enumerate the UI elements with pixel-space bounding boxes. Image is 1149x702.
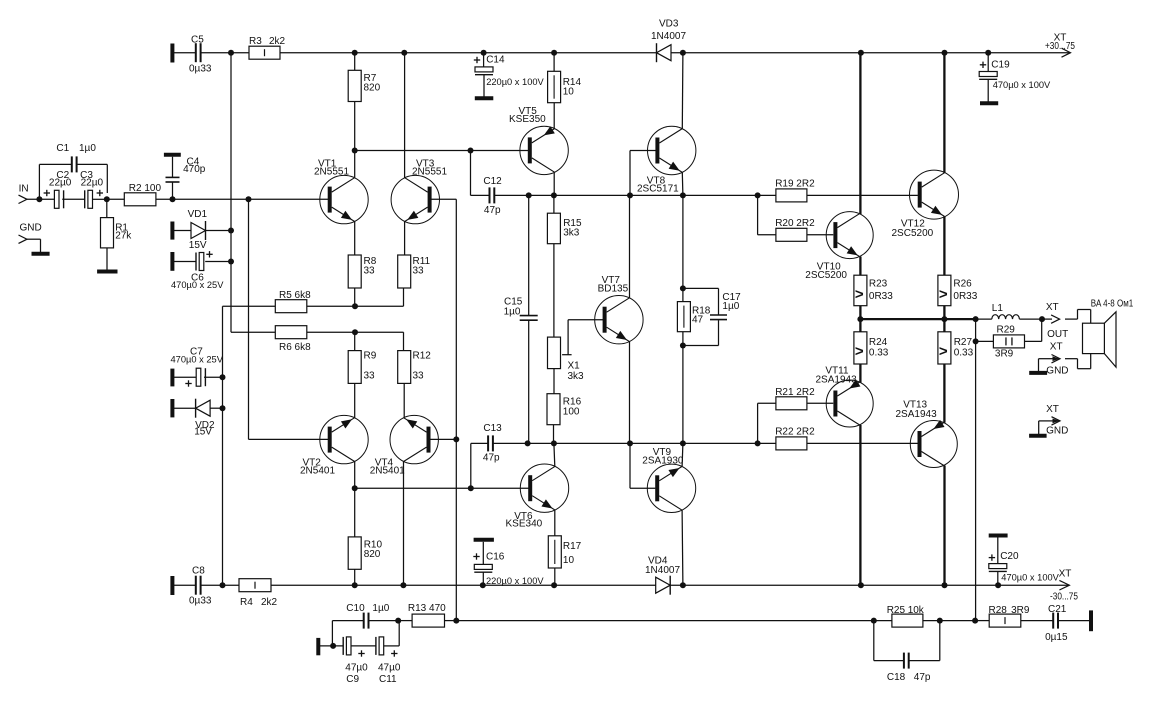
label VD1 15V: [188, 209, 208, 251]
junction C4 tap: [170, 196, 176, 202]
terminal bar C5 left: [170, 44, 174, 63]
transistor VT6 KSE340: [520, 464, 568, 512]
junction R29 left: [973, 338, 979, 344]
junction C7 / column: [220, 374, 226, 380]
junction VT2 collector / VT6 base row: [352, 485, 358, 491]
wire R25 left: [874, 620, 892, 622]
wire NFB row long: [456, 620, 874, 622]
resistor R1: [101, 218, 114, 248]
svg-text:XT: XT: [1059, 569, 1072, 580]
junction R25 left / C18: [871, 618, 877, 624]
resistor R3: [249, 46, 280, 59]
junction bottom rail / R17: [551, 582, 557, 588]
wire R16 to row443: [553, 425, 555, 444]
resistor R10: [348, 537, 361, 569]
wire C2 to C3: [62, 198, 84, 200]
resistor R2: [124, 193, 156, 206]
junction top rail / R14: [551, 50, 557, 56]
capacitor C7 470u0x25V: [196, 368, 205, 386]
svg-text:0µ15: 0µ15: [1045, 632, 1068, 643]
wire bottom -rail left segment: [174, 584, 196, 586]
wire R2 to VT1 base node: [156, 198, 249, 200]
junction top rail / VT12 collector: [942, 50, 948, 56]
svg-text:2N5551: 2N5551: [314, 166, 349, 177]
svg-text:>: >: [939, 286, 948, 303]
label VT12 2SC5200: [892, 218, 934, 238]
svg-text:R12: R12: [413, 351, 432, 362]
svg-text:0R33: 0R33: [869, 291, 893, 302]
transistor VT8 2SC5171: [648, 126, 696, 174]
diode VD4 1N4007: [656, 576, 671, 595]
junction bottom rail / R4 node: [220, 582, 226, 588]
svg-text:R22 2R2: R22 2R2: [775, 427, 815, 438]
wire R13 to NFB junction: [445, 620, 457, 622]
plus C11: [391, 650, 397, 656]
wire GND connector: [27, 238, 41, 240]
wire output row to R24 (thick): [859, 319, 861, 332]
svg-text:2SC5200: 2SC5200: [892, 228, 934, 239]
junction row195 / R19 R20 node: [755, 192, 761, 198]
wire R18 top short: [682, 288, 684, 301]
resistor R25 10k: [892, 614, 923, 627]
wire R8 to tail: [354, 288, 356, 306]
wire +bias column x231: [230, 53, 232, 333]
wire R21 left: [758, 402, 776, 404]
wire C20 bottom: [997, 571, 999, 585]
wire VT9 emitter up: [681, 443, 684, 466]
terminal bar C8 left: [170, 576, 174, 595]
capacitor C21 0u15: [1053, 613, 1058, 629]
wire input to VT2 base column x248: [248, 199, 250, 439]
svg-text:R9: R9: [364, 351, 377, 362]
wire VT4 collector to bottom rail: [403, 462, 405, 586]
terminal bar C4 top: [164, 153, 181, 157]
label VT5 KSE350: [509, 106, 546, 125]
label VT2 2N5401: [300, 457, 335, 476]
plus C19: [980, 62, 986, 68]
wire C16 top: [482, 542, 484, 565]
svg-text:C18: C18: [887, 672, 906, 683]
wire C1 branch right: [77, 163, 108, 165]
plus C7: [185, 380, 191, 386]
plus C2: [44, 190, 50, 196]
wire VT5 collector down: [553, 172, 555, 195]
resistor R9: [348, 351, 361, 384]
svg-text:0.33: 0.33: [869, 348, 889, 359]
svg-text:R24: R24: [869, 337, 888, 348]
svg-text:GND: GND: [20, 223, 42, 234]
junction top rail / VT3 collector: [401, 50, 407, 56]
wire VT12 emitter to R26 (thick): [943, 217, 945, 276]
junction R8/R11 tail: [352, 303, 358, 309]
wire R7 top: [354, 53, 356, 71]
junction row195 / VT7 collector VT8 base: [627, 192, 633, 198]
junction top rail / R7: [352, 50, 358, 56]
svg-text:R2 100: R2 100: [129, 183, 162, 194]
junction row195 / VT8 emitter: [680, 192, 686, 198]
resistor R26 0R33: [938, 275, 951, 306]
resistor R15: [547, 213, 560, 244]
resistor R12: [398, 351, 411, 384]
wire R26 to output row (thick): [943, 306, 945, 319]
wire R28 left: [975, 620, 989, 622]
wire C13 left leg: [470, 443, 472, 488]
wire C20 top: [997, 538, 999, 564]
wire X1 to R16: [553, 369, 555, 394]
svg-text:C5: C5: [191, 35, 204, 46]
capacitor C15 1u0: [520, 316, 538, 321]
svg-text:C21: C21: [1048, 604, 1067, 615]
wire bottom -rail C8 to VD4: [201, 584, 656, 586]
wire C17 loop top: [683, 287, 719, 289]
transistor VT1 2N5551: [320, 175, 368, 223]
terminal bar C14 bottom: [475, 96, 494, 100]
wire output to R29 row: [975, 319, 977, 341]
wire R15 to X1: [553, 244, 555, 337]
svg-text:2k2: 2k2: [261, 597, 278, 608]
terminal bar C19 bottom: [980, 101, 998, 105]
label VT10 2SC5200: [805, 261, 847, 281]
wire C12 left leg: [470, 151, 472, 196]
wire VAS upper row y195: [494, 194, 757, 196]
svg-text:2N5401: 2N5401: [300, 466, 335, 477]
label R8 33: [364, 256, 377, 277]
wire R1 down: [106, 199, 108, 217]
junction output row / R23 R24: [857, 316, 863, 322]
junction row443 / VT9 emitter: [680, 440, 686, 446]
svg-text:C20: C20: [1000, 551, 1019, 562]
svg-text:R3: R3: [249, 36, 262, 47]
junction bottom rail / VT13 collector: [942, 582, 948, 588]
wire C17 loop bottom: [718, 320, 720, 345]
label VD3 1N4007: [651, 19, 686, 43]
label VT11 2SA1943: [816, 366, 858, 386]
svg-text:470µ0 x 100V: 470µ0 x 100V: [1001, 572, 1059, 582]
zener VD2 15V: [196, 399, 211, 418]
wire R22 right to VT13 base: [807, 442, 918, 444]
wire R23 to output row (thick): [859, 306, 861, 319]
svg-text:2SA1943: 2SA1943: [896, 409, 938, 420]
wire output row to R27 (thick): [943, 319, 945, 332]
transistor VT10 2SC5200: [826, 212, 873, 259]
wire R20 left: [758, 234, 776, 236]
wire VT12 collector to top rail (thick): [943, 53, 945, 173]
wire R19/R20 connector: [757, 195, 759, 234]
capacitor C20 470u0x100V: [989, 564, 1007, 572]
svg-text:-30...75: -30...75: [1050, 592, 1078, 603]
resistor R21 2R2: [776, 397, 807, 410]
connector GND arrow: [19, 235, 28, 243]
wire tail to R9: [354, 332, 356, 350]
wire VT8 emitter to row: [681, 172, 684, 195]
wire R29 right: [1025, 340, 1042, 342]
wire R6 right to tail junction: [307, 331, 404, 333]
resistor R7: [348, 70, 361, 101]
terminal bar C6 left: [170, 252, 174, 271]
svg-text:L1: L1: [992, 303, 1004, 314]
wire X1 tap: [567, 320, 569, 355]
wire speaker bottom lead: [1065, 358, 1078, 360]
svg-text:3R9: 3R9: [1011, 605, 1030, 616]
wire R14 to VT5 emitter: [553, 103, 555, 129]
svg-text:R25: R25: [887, 605, 906, 616]
capacitor C9 47u0: [343, 637, 351, 655]
wire output row (thick): [860, 318, 975, 320]
wire VT3 base to NFB column: [430, 198, 457, 200]
capacitor C6 470u0x25V: [196, 253, 204, 271]
junction bottom rail / C16: [480, 582, 486, 588]
svg-text:0R33: 0R33: [953, 291, 977, 302]
label R17 10: [563, 541, 582, 566]
terminal bar GND input: [32, 252, 50, 256]
wire VT8 base drop: [629, 151, 631, 196]
svg-text:3R9: 3R9: [995, 348, 1014, 359]
terminal XT OUT arrow: [1051, 315, 1060, 323]
svg-text:R23: R23: [869, 278, 888, 289]
capacitor C14 220u0x100V: [475, 67, 493, 75]
wire C4 top: [172, 157, 174, 178]
wire VT3 collector to top rail: [404, 101, 406, 178]
wire VT8 base: [630, 150, 656, 152]
svg-text:R21 2R2: R21 2R2: [775, 387, 815, 398]
svg-text:220µ0 x 100V: 220µ0 x 100V: [486, 77, 544, 87]
wire C6 left: [174, 261, 196, 263]
svg-text:33: 33: [413, 266, 425, 277]
svg-text:C8: C8: [192, 566, 205, 577]
wire R24 to VT11 emitter (thick): [859, 364, 861, 383]
junction VD1 / column: [228, 228, 234, 234]
label X1 3k3: [568, 361, 585, 382]
wire VT6 base row: [355, 487, 529, 489]
label R24 0.33: [869, 337, 889, 359]
junction R18 C17 bottom: [680, 343, 686, 349]
wire VT11 collector to bottom rail (thick): [859, 425, 861, 585]
svg-text:2N5401: 2N5401: [370, 466, 405, 477]
label R23 0R33: [869, 278, 893, 301]
junction bottom rail / VT4 collector: [400, 582, 406, 588]
svg-text:2k2: 2k2: [269, 36, 286, 47]
svg-text:X1: X1: [568, 361, 581, 372]
terminal XT -30...75 arrow: [1059, 580, 1069, 590]
wire -bias column x222: [222, 306, 224, 585]
terminal bar GND output: [1029, 371, 1047, 375]
wire VT8 collector to rail: [681, 53, 684, 129]
label R26 0R33: [953, 278, 977, 301]
resistor R13 470: [412, 614, 444, 627]
svg-text:2N5551: 2N5551: [412, 166, 447, 177]
capacitor C5: [196, 43, 201, 62]
svg-text:VD1: VD1: [188, 209, 208, 220]
svg-text:GND: GND: [1046, 365, 1068, 376]
wire R18 bottom short: [682, 332, 684, 346]
wire to VT1 base: [249, 198, 331, 200]
wire C10 left + drop: [332, 620, 363, 622]
terminal bar R1 ground: [97, 270, 117, 274]
capacitor C1 1u0: [72, 156, 77, 172]
svg-text:1µ0: 1µ0: [722, 301, 739, 312]
junction VT1 collector / VT5 base row: [352, 148, 358, 154]
wire speaker top lead: [1065, 318, 1078, 320]
label VT3 2N5551: [412, 159, 447, 178]
capacitor C18 47p: [904, 653, 909, 669]
wire R20 right to VT10 base: [807, 234, 833, 236]
junction row443 / R21 R22 node: [755, 440, 761, 446]
wire to OUT arrow: [1042, 318, 1052, 320]
wire VT9 collector to rail: [681, 510, 684, 585]
junction output node: [973, 316, 979, 322]
wire VAS lower row y443: [493, 442, 758, 444]
wire R6 row left: [231, 331, 275, 333]
svg-text:47µ0: 47µ0: [378, 662, 401, 673]
plus C16: [473, 553, 479, 559]
svg-text:XT: XT: [1046, 302, 1059, 313]
transistor VT11 2SA1943: [826, 379, 873, 427]
terminal XT +30...75 arrow: [1062, 48, 1071, 57]
wire R1 to ground bar: [106, 248, 108, 270]
wire R15 top: [553, 195, 555, 213]
junction R9/R12 tail: [352, 329, 358, 335]
wire VT4 base: [429, 438, 457, 440]
svg-text:1N4007: 1N4007: [651, 31, 686, 42]
svg-text:1µ0: 1µ0: [79, 143, 96, 154]
wire R5 right to tail junction: [307, 305, 404, 307]
transistor VT3 2N5551: [391, 175, 439, 223]
svg-text:27k: 27k: [115, 230, 132, 241]
label R3 2k2: [249, 36, 286, 47]
capacitor C8: [196, 576, 201, 595]
svg-text:R4: R4: [240, 597, 253, 608]
svg-text:C19: C19: [991, 59, 1010, 70]
junction after L1: [1039, 316, 1045, 322]
wire R5 row left: [223, 305, 276, 307]
capacitor C3 22u0: [85, 190, 93, 208]
transistor VT9 2SA1930: [647, 464, 695, 512]
junction node B / R1 top: [104, 196, 110, 202]
terminal bar C16 top: [474, 538, 494, 542]
inductor L1: [992, 315, 1020, 319]
transistor VT4 2N5401: [390, 415, 438, 463]
capacitor C12 47p: [490, 187, 495, 203]
svg-text:0.33: 0.33: [954, 348, 974, 359]
transistor VT2 2N5401: [320, 415, 368, 463]
wire C19 bottom: [987, 79, 989, 101]
resistor R16: [547, 394, 560, 425]
svg-text:GND: GND: [1046, 426, 1068, 437]
wire R10 to bottom rail: [354, 569, 356, 585]
wire VT13 collector to bottom rail (thick): [943, 466, 945, 586]
wire down to row443: [682, 346, 684, 444]
resistor R23 0R33: [854, 275, 867, 306]
wire VD1 anode: [174, 230, 191, 232]
wire R12 to VT4 emitter: [403, 383, 405, 417]
svg-text:C16: C16: [486, 552, 505, 563]
svg-text:OUT: OUT: [1047, 329, 1068, 340]
svg-text:0µ33: 0µ33: [189, 596, 212, 607]
junction bottom rail / VT11 collector: [858, 582, 864, 588]
wire C6 to column: [205, 261, 231, 263]
junction VD2 / column: [220, 405, 226, 411]
wire VT9 base: [630, 487, 655, 489]
wire VT10 collector to top rail (thick): [859, 53, 861, 214]
wire R9 to VT2 emitter: [354, 383, 356, 417]
wire R21/R22 connector: [757, 403, 759, 443]
svg-text:R26: R26: [953, 278, 972, 289]
label R16 100: [563, 397, 582, 418]
wire node to R2: [107, 198, 125, 200]
svg-text:2SA1943: 2SA1943: [816, 374, 858, 385]
svg-text:100: 100: [563, 407, 580, 418]
label R4 2k2: [240, 597, 278, 608]
wire R14 top: [553, 53, 555, 72]
plus C6: [206, 251, 212, 257]
wire top +rail C5 to VD3: [201, 52, 657, 54]
terminal bar C21 right: [1089, 610, 1093, 631]
junction row443 / C15: [525, 440, 531, 446]
connector IN arrow: [19, 195, 28, 203]
wire VT2 base row: [249, 438, 329, 440]
svg-text:VD3: VD3: [659, 19, 679, 30]
plus C9: [358, 650, 364, 656]
wire R28 to C21: [1021, 620, 1053, 622]
wire VT10 emitter to R23 (thick): [859, 257, 861, 276]
terminal bar C20 top: [989, 534, 1008, 538]
terminal bar GND second: [1029, 434, 1047, 438]
capacitor C17 1u0: [710, 315, 727, 320]
wire C7 to column: [204, 376, 223, 378]
svg-text:+30...75: +30...75: [1045, 41, 1075, 52]
junction bottom rail / VT9 collector: [680, 582, 686, 588]
junction top rail / R3 node: [228, 50, 234, 56]
loudspeaker BA1 4-8 Ohm: [1083, 312, 1117, 367]
wire VD1 cathode to column: [206, 230, 231, 232]
wire C15 top leg: [528, 195, 530, 315]
svg-text:47p: 47p: [914, 672, 931, 683]
capacitor C19 470u0x100V: [979, 72, 997, 80]
svg-text:1µ0: 1µ0: [504, 307, 521, 318]
svg-text:47: 47: [692, 315, 704, 326]
wire R13 left: [398, 620, 412, 622]
resistor R4: [239, 579, 271, 592]
svg-text:C10: C10: [346, 603, 365, 614]
wire C11 right + rise: [384, 645, 400, 647]
label VT1 2N5551: [314, 159, 349, 178]
wire bar to C9 node: [320, 645, 343, 647]
junction bottom rail / C20: [995, 582, 1001, 588]
label R15 3k3: [563, 218, 582, 239]
svg-text:470µ0 x 25V: 470µ0 x 25V: [171, 355, 224, 365]
svg-text:47p: 47p: [483, 453, 500, 464]
wire R7 to VT1 collector: [354, 102, 356, 178]
wire C14 top: [483, 53, 485, 67]
capacitor C2 22u0: [54, 190, 63, 208]
label R1 27k: [115, 223, 132, 242]
svg-text:47µ0: 47µ0: [345, 662, 368, 673]
junction row443 / VT7 emitter VT9 base: [627, 440, 633, 446]
resistor R14: [548, 71, 561, 102]
junction C6 / column: [228, 259, 234, 265]
capacitor C16 220u0x100V: [474, 564, 492, 572]
svg-text:R5 6k8: R5 6k8: [279, 290, 311, 301]
label VT8 2SC5171: [637, 176, 679, 195]
wire R19 right to VT12 base: [807, 194, 918, 196]
plus C14: [474, 57, 480, 63]
junction VT6 base / C13: [468, 485, 474, 491]
resistor R29 3R9: [993, 335, 1024, 348]
wire output to NFB row: [975, 341, 977, 620]
svg-text:XT: XT: [1046, 404, 1059, 415]
svg-text:2SC5200: 2SC5200: [805, 270, 847, 281]
svg-text:R29: R29: [997, 324, 1016, 335]
